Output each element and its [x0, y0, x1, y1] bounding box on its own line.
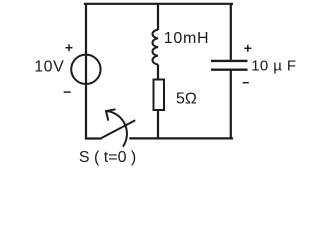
wire middle top — [157, 4, 159, 30]
voltage source V1 — [71, 55, 100, 84]
polarity - of C1 — [243, 82, 249, 84]
wire top — [85, 3, 232, 5]
svg-text:10 µ F: 10 µ F — [251, 57, 296, 74]
polarity - of V1 — [64, 91, 71, 93]
wire inductor to resistor — [157, 65, 159, 80]
svg-text:S ( t=0 ): S ( t=0 ) — [79, 149, 136, 166]
resistor R1 — [154, 80, 165, 111]
polarity + of V1 — [66, 44, 73, 51]
wire resistor to bottom — [157, 110, 159, 138]
switch arrow arc — [106, 111, 127, 147]
inductor L1 — [152, 30, 158, 65]
capacitor C1 — [211, 61, 248, 70]
wire right upper — [230, 4, 232, 60]
switch S blade — [101, 120, 136, 138]
svg-text:5Ω: 5Ω — [176, 91, 197, 108]
wire left vertical — [85, 4, 87, 139]
wire bottom — [130, 137, 232, 139]
polarity + of C1 — [244, 45, 251, 52]
svg-text:10mH: 10mH — [164, 30, 209, 47]
svg-text:10V: 10V — [34, 59, 64, 76]
wire right lower — [230, 70, 232, 139]
switch arrowhead — [106, 109, 116, 120]
switch S stub — [86, 137, 101, 139]
